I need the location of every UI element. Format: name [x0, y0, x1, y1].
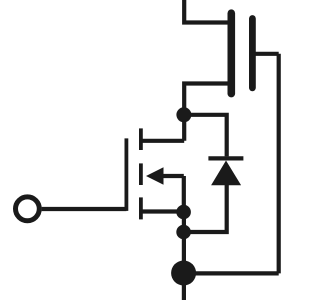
transistor M1 bulk arrow tail — [163, 174, 184, 178]
transistor M1 channel segment bottom — [139, 197, 143, 219]
wire Q2 gate lead — [252, 52, 278, 56]
wire top drain lead — [184, 0, 229, 23]
node drain junction dot — [176, 107, 191, 122]
transistor Q2 gate plate — [249, 19, 256, 88]
wire bottom bus to bulk node — [184, 271, 279, 275]
wire M1 drain lead — [141, 139, 184, 143]
transistor M1 gate lead wire — [42, 207, 127, 211]
transistor M1 gate bar — [125, 138, 129, 211]
diode cathode bar — [208, 156, 243, 160]
wire M1 source lead — [141, 209, 184, 213]
node anode junction dot — [176, 225, 191, 240]
node bulk big dot — [171, 261, 196, 286]
transistor M1 bulk arrow head — [146, 167, 164, 185]
diode anode triangle — [211, 161, 241, 186]
transistor Q2 channel plate — [228, 13, 236, 93]
wire Q2 source lead — [184, 84, 229, 141]
wire main vertical to bottom edge — [182, 212, 186, 300]
transistor M1 channel segment middle — [139, 163, 143, 185]
wire bulk arrow to source node — [182, 176, 186, 212]
node source junction dot — [176, 205, 191, 220]
wire right bus vertical — [277, 54, 281, 274]
wire diode top lead — [184, 115, 227, 157]
wire diode bottom lead — [184, 185, 227, 232]
transistor M1 channel segment top — [139, 128, 143, 150]
terminal circle — [16, 197, 40, 221]
